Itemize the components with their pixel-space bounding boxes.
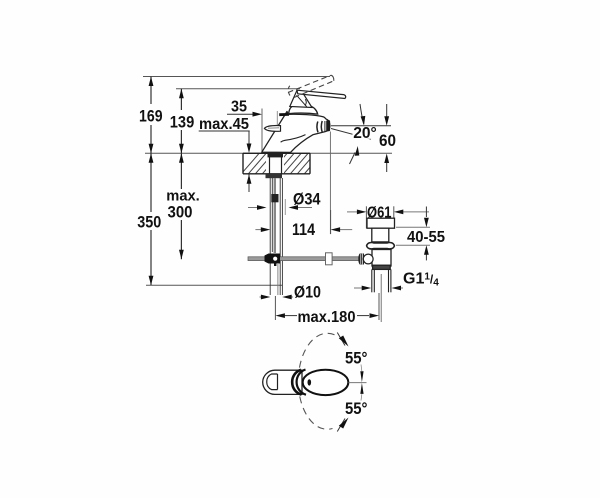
svg-text:Ø34: Ø34	[293, 190, 321, 209]
pivot block	[265, 254, 281, 267]
svg-text:40-55: 40-55	[407, 229, 445, 246]
top view rotation arrow bottom	[337, 419, 345, 432]
label 20deg	[353, 127, 378, 139]
node: arrowheads for left dimensions	[149, 77, 184, 286]
spout nose: aerator ring	[317, 121, 322, 133]
dimension max.180	[275, 293, 379, 320]
svg-text:max.45: max.45	[199, 116, 249, 133]
label 139	[167, 110, 197, 130]
horizontal pop-up rod (gray)	[248, 257, 363, 261]
left tab lever	[264, 126, 280, 132]
svg-text:60: 60	[379, 131, 396, 150]
handle dome (cartridge cap)	[289, 105, 318, 114]
waste ball joint knuckle	[358, 254, 373, 265]
dimension 35 leader	[227, 113, 254, 115]
handle grip inner arc	[267, 374, 278, 390]
flange top	[367, 218, 395, 228]
top view: angle arrows at centerline	[360, 371, 363, 382]
svg-text:20°: 20°	[353, 125, 377, 142]
label 114	[288, 221, 317, 237]
deck slab hatched	[236, 150, 332, 180]
waste: O61 dimension	[347, 206, 429, 228]
lower body	[372, 250, 391, 267]
top view: swivel dashed ellipse	[298, 333, 334, 429]
body top-left thick mark	[279, 113, 289, 116]
locknut band	[373, 265, 391, 269]
o-ring ridge	[367, 243, 395, 249]
label max.300	[165, 189, 201, 220]
top view: set screw dot	[308, 379, 312, 385]
wire: 350 bottom extension (hose end level)	[146, 284, 282, 286]
svg-text:139: 139	[170, 113, 195, 132]
wire: spout tip vertical extension down to 114 dim	[329, 132, 331, 235]
handle lever arm	[290, 91, 312, 108]
top view rotation arrow top	[337, 333, 345, 346]
svg-text:55°: 55°	[345, 399, 368, 418]
wire: 139/max300 dimension vertical line	[180, 89, 182, 260]
supply pipe below deck	[270, 178, 282, 295]
wire: top extension line (169 level)	[143, 76, 330, 78]
dimension O10	[260, 296, 294, 298]
svg-text:Ø10: Ø10	[294, 283, 321, 302]
faucet body	[262, 112, 330, 153]
barrel	[372, 228, 389, 242]
waste center line	[380, 274, 382, 322]
wire: faucet centerline	[276, 111, 278, 153]
waste tail pipe	[372, 269, 391, 292]
60 dimension	[386, 104, 388, 172]
shank gasket at deck	[268, 154, 284, 158]
label 169	[136, 104, 165, 125]
label 350	[135, 212, 165, 230]
top view: body ellipse	[303, 370, 349, 395]
svg-text:169: 169	[139, 106, 163, 125]
wire: 139 top extension line	[176, 88, 300, 90]
dimension max.45 leader	[199, 131, 250, 192]
dimension G1 1/4	[354, 287, 403, 289]
spout nose: dark end cap	[326, 120, 330, 131]
top view: joint arcs	[292, 370, 306, 395]
wire: 350 dimension vertical line	[150, 77, 152, 286]
wire: deck top extension line across	[145, 152, 392, 154]
mounting nut below deck	[266, 174, 283, 178]
20 degree dimension rays	[331, 104, 391, 164]
svg-text:max.180: max.180	[298, 309, 356, 326]
pop-up waste body	[367, 218, 395, 269]
spout underside sweep inner contour	[281, 135, 306, 143]
dimension 40-55	[396, 207, 430, 261]
rod coupler	[326, 253, 333, 265]
top view: handle capsule	[263, 370, 302, 394]
top view: center line	[349, 382, 367, 384]
handle raised dashed outline	[288, 75, 334, 97]
handle bar	[297, 90, 346, 98]
pop-up rod vertical (gray)	[274, 178, 276, 253]
svg-text:114: 114	[292, 220, 315, 239]
svg-text:300: 300	[168, 203, 193, 222]
svg-text:55°: 55°	[345, 349, 368, 368]
dimension 114	[255, 210, 352, 234]
collar on rod	[271, 194, 278, 202]
svg-text:35: 35	[231, 99, 247, 116]
dimension O34	[248, 199, 312, 215]
svg-text:350: 350	[137, 212, 161, 231]
shank through deck	[270, 157, 282, 174]
